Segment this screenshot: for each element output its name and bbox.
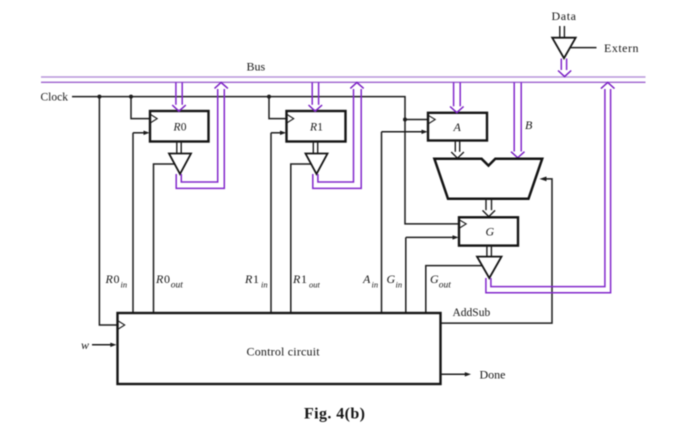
register R0 [150, 111, 209, 142]
wire R0 output doubles [177, 142, 181, 154]
wire AddSub control [441, 177, 553, 324]
svg-text:0: 0 [181, 122, 187, 134]
wire Ain [382, 130, 428, 313]
wire R1in [271, 131, 286, 313]
wire clock to control circuit [99, 97, 117, 325]
wire R1out [291, 164, 311, 313]
svg-text:AddSub: AddSub [453, 307, 491, 319]
svg-text:R: R [173, 122, 181, 134]
tri-state buffer G [477, 257, 502, 279]
node clock-R0 junction [129, 95, 133, 99]
register A [428, 113, 487, 141]
wire Extern buffer to bus (purple double with arrow) [558, 59, 571, 77]
svg-text:Data: Data [552, 9, 577, 23]
svg-text:1: 1 [301, 272, 307, 286]
svg-text:A: A [453, 120, 462, 134]
svg-text:out: out [309, 280, 321, 290]
wire Done [441, 372, 472, 376]
svg-text:R: R [292, 272, 301, 286]
svg-text:in: in [261, 280, 268, 290]
wire w input [92, 343, 117, 347]
wire ALU to G (black double with open arrow) [483, 199, 496, 217]
label Ain [362, 272, 378, 290]
label Gin [387, 272, 403, 290]
wire G output doubles [487, 246, 492, 257]
svg-text:Extern: Extern [604, 41, 639, 55]
wire Gin [406, 235, 459, 313]
svg-text:R: R [105, 272, 114, 286]
svg-text:R: R [155, 272, 164, 286]
wire R0out [154, 164, 175, 313]
svg-text:w: w [81, 338, 89, 352]
label Gout [430, 272, 451, 291]
control circuit box [118, 313, 441, 384]
svg-text:G: G [486, 225, 495, 239]
label R0in [105, 272, 128, 290]
svg-text:Bus: Bus [247, 60, 266, 74]
wire bus to A (purple double with arrow) [450, 82, 464, 112]
svg-text:Clock: Clock [41, 92, 69, 104]
wire Extern [570, 47, 596, 49]
wire clock to R1 [269, 97, 287, 119]
bus (two horizontal purple lines) [41, 77, 646, 82]
svg-text:1: 1 [253, 272, 259, 286]
node clock-R1 junction [267, 95, 271, 99]
wire R0 to bus (purple double with arrow) [176, 83, 228, 189]
wire Gout [426, 266, 482, 313]
wire R1 output doubles [313, 142, 317, 154]
svg-text:1: 1 [317, 122, 323, 134]
tri-state buffer R1 [306, 154, 328, 175]
svg-text:out: out [171, 281, 184, 291]
svg-text:0: 0 [164, 272, 170, 286]
register G [459, 217, 518, 245]
svg-text:Done: Done [480, 368, 506, 382]
wire bus to R1 (purple double with arrow) [309, 82, 323, 111]
svg-text:G: G [387, 272, 396, 286]
svg-text:in: in [372, 280, 379, 290]
svg-text:in: in [121, 280, 128, 290]
svg-text:in: in [396, 280, 403, 290]
wire R1 to bus (purple double with arrow) [313, 83, 364, 189]
tri-state buffer R0 [169, 154, 191, 175]
svg-text:out: out [439, 281, 452, 291]
wire bus to B input (purple double with arrow) [511, 82, 525, 158]
node clock-A-G junction [403, 118, 407, 122]
label R1in [244, 272, 268, 290]
register R1 [287, 111, 346, 142]
svg-text:0: 0 [114, 272, 120, 286]
svg-text:B: B [525, 118, 533, 132]
svg-text:Control circuit: Control circuit [247, 345, 321, 359]
wire G to bus (purple double with arrow) [486, 83, 615, 293]
wire A to AddSub (black double with open arrow) [451, 141, 464, 159]
AddSub ALU trapezoid [434, 159, 542, 199]
wire bus to R0 (purple double with arrow) [172, 82, 186, 111]
svg-text:R: R [309, 122, 317, 134]
node clock-control junction [97, 95, 101, 99]
label R1out [292, 272, 321, 290]
svg-text:Fig. 4(b): Fig. 4(b) [304, 406, 365, 423]
tri-state buffer Extern [552, 38, 576, 59]
wire clock main [72, 97, 459, 224]
svg-text:A: A [362, 272, 371, 286]
wire clock to R0 [131, 97, 150, 119]
svg-text:R: R [244, 272, 253, 286]
svg-text:G: G [430, 272, 439, 286]
wire R0in [133, 131, 150, 313]
wire Data doubles [560, 26, 565, 38]
label R0out [155, 272, 183, 291]
